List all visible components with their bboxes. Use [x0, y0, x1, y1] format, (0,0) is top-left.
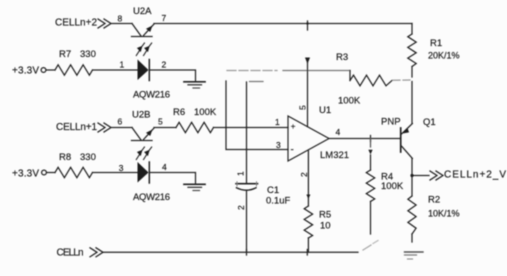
svg-text:330: 330: [80, 49, 96, 60]
svg-text:330: 330: [80, 152, 96, 163]
svg-text:2: 2: [299, 172, 309, 177]
svg-text:1: 1: [275, 117, 280, 127]
svg-text:U2A: U2A: [133, 6, 152, 17]
svg-text:-: -: [291, 145, 294, 156]
svg-text:CELLn+2: CELLn+2: [55, 18, 97, 29]
svg-text:20K/1%: 20K/1%: [428, 51, 460, 61]
svg-text:AQW216: AQW216: [133, 90, 170, 101]
svg-text:4: 4: [162, 162, 167, 172]
svg-text:U2B: U2B: [132, 110, 150, 121]
svg-text:2: 2: [162, 60, 167, 70]
svg-text:3: 3: [119, 163, 124, 173]
svg-text:7: 7: [162, 13, 167, 23]
svg-text:4: 4: [336, 127, 341, 137]
svg-text:100K: 100K: [338, 96, 361, 107]
svg-text:PNP: PNP: [381, 117, 401, 128]
svg-text:3: 3: [276, 140, 281, 150]
svg-text:1: 1: [236, 171, 246, 176]
svg-text:5: 5: [158, 117, 163, 127]
svg-text:R7: R7: [59, 49, 71, 60]
svg-text:+3.3V: +3.3V: [12, 169, 39, 180]
svg-text:R3: R3: [336, 52, 348, 63]
svg-text:CELLn+1: CELLn+1: [56, 122, 97, 133]
svg-text:R8: R8: [59, 152, 71, 163]
svg-text:1: 1: [120, 60, 125, 70]
svg-text:R6: R6: [173, 107, 185, 118]
svg-text:2: 2: [236, 205, 246, 210]
svg-text:10K/1%: 10K/1%: [428, 209, 460, 219]
svg-text:CELLn: CELLn: [57, 248, 84, 259]
svg-text:R2: R2: [428, 195, 440, 206]
svg-text:6: 6: [118, 117, 123, 127]
svg-text:C1: C1: [267, 185, 279, 196]
svg-text:CELLn+2_V: CELLn+2_V: [444, 170, 506, 181]
svg-text:+: +: [291, 122, 296, 131]
svg-text:0.1uF: 0.1uF: [266, 196, 290, 207]
svg-text:+3.3V: +3.3V: [12, 66, 39, 77]
svg-text:R5: R5: [319, 210, 331, 221]
svg-text:LM321: LM321: [320, 150, 349, 161]
svg-text:100K: 100K: [381, 181, 404, 192]
svg-text:U1: U1: [319, 105, 331, 116]
svg-text:R1: R1: [430, 38, 442, 49]
svg-text:Q1: Q1: [423, 117, 436, 128]
svg-text:8: 8: [118, 14, 123, 24]
svg-text:AQW216: AQW216: [133, 192, 170, 203]
svg-text:10: 10: [320, 221, 331, 232]
svg-text:5: 5: [298, 105, 308, 110]
svg-text:100K: 100K: [194, 107, 217, 118]
